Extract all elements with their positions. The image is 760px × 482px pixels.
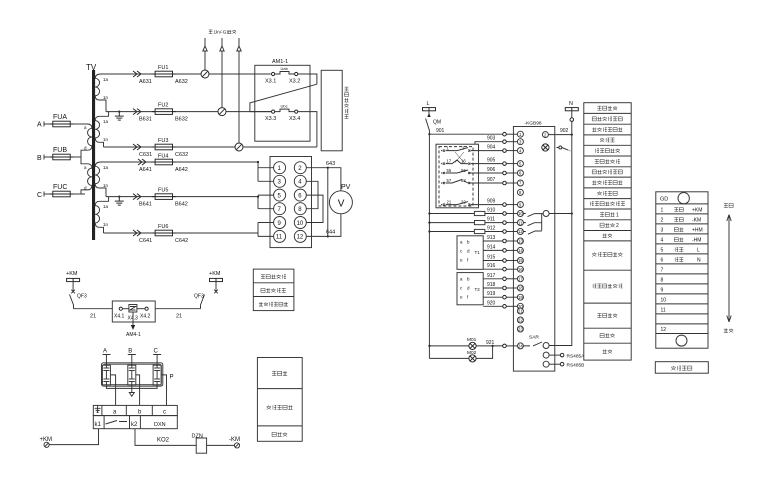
wire 918	[483, 287, 503, 289]
svg-text:58: 58	[461, 178, 466, 183]
svg-text:A632: A632	[175, 79, 188, 85]
svg-text:1: 1	[278, 166, 282, 172]
fuse FU2	[152, 109, 176, 115]
wire k1 down to +KM	[49, 429, 99, 445]
stud RS485A	[560, 353, 564, 357]
node 921	[492, 345, 494, 347]
svg-text:FU1: FU1	[158, 65, 168, 71]
legend table A	[253, 269, 294, 311]
svg-text:1: 1	[616, 213, 619, 219]
svg-text:1n: 1n	[103, 95, 109, 100]
svg-text:AM1-1: AM1-1	[272, 59, 288, 65]
svg-text:16: 16	[461, 158, 466, 163]
switch SAR	[523, 342, 543, 346]
svg-text:910: 910	[487, 208, 496, 214]
svg-text:9: 9	[661, 288, 664, 294]
switch QM	[426, 119, 430, 135]
svg-text:3: 3	[278, 180, 282, 186]
row2 chevron	[133, 109, 141, 115]
node 643	[327, 167, 329, 169]
svg-text:FU3: FU3	[158, 138, 168, 144]
svg-text:1: 1	[661, 208, 664, 214]
wire 905	[473, 163, 503, 165]
terminal -KM bottom	[234, 443, 239, 448]
sensor 3	[153, 365, 161, 385]
right margin top text	[724, 203, 733, 207]
feed 917	[503, 277, 507, 281]
svg-text:B631: B631	[139, 117, 152, 123]
wire 915	[483, 260, 503, 262]
sensor 1	[102, 365, 110, 385]
ground at B631	[115, 112, 124, 121]
svg-text:906: 906	[487, 167, 496, 173]
svg-text:17: 17	[447, 158, 452, 163]
wire M02 row	[429, 346, 492, 359]
svg-text:AM4-1: AM4-1	[126, 332, 141, 338]
primary winding P1	[81, 124, 92, 157]
svg-text:C: C	[37, 192, 42, 199]
legend table B	[257, 358, 302, 442]
feed 920	[503, 305, 507, 309]
terminal 12	[294, 230, 306, 242]
terminal 11	[274, 230, 286, 242]
junction box bottom row	[93, 416, 177, 429]
busbar +KM left	[67, 278, 80, 281]
svg-text:6: 6	[298, 193, 302, 199]
svg-text:22: 22	[461, 199, 466, 204]
svg-text:7: 7	[661, 268, 664, 274]
wire S1 top to row1	[101, 73, 130, 75]
node B641 bracket	[257, 196, 259, 198]
svg-text:11: 11	[518, 220, 523, 225]
svg-text:11: 11	[661, 308, 666, 314]
svg-text:23: 23	[518, 327, 523, 332]
svg-text:KO2: KO2	[157, 438, 170, 444]
fuse FUA	[50, 121, 74, 127]
svg-text:5: 5	[278, 193, 282, 199]
svg-text:-HM: -HM	[692, 238, 701, 244]
svg-text:X4.1: X4.1	[114, 314, 125, 320]
node 902 N	[571, 134, 573, 136]
svg-text:1kV-G1: 1kV-G1	[214, 30, 230, 35]
feed 919	[503, 295, 507, 299]
svg-text:X3.3: X3.3	[265, 116, 276, 122]
terminal RS485A	[543, 352, 549, 358]
wire 919	[483, 296, 503, 298]
svg-text:1n: 1n	[103, 137, 109, 142]
svg-text:10: 10	[297, 221, 304, 227]
svg-text:1a: 1a	[103, 204, 109, 209]
svg-text:14: 14	[518, 248, 523, 253]
wire X3.4 right riser from C row	[298, 112, 317, 147]
svg-text:5: 5	[661, 248, 664, 254]
GD rows text	[661, 208, 703, 334]
legend B row3 text	[272, 432, 287, 436]
wire SAR to N bus	[549, 214, 572, 346]
contact row 906	[441, 168, 473, 174]
wire 914	[483, 249, 503, 251]
wire S2 bottom to row3	[104, 146, 131, 148]
wire 644 from terminal 12	[306, 214, 341, 237]
svg-text:4: 4	[661, 238, 664, 244]
node 912	[428, 230, 430, 232]
terminal 1	[274, 162, 286, 174]
wire S3 top to row4	[101, 161, 130, 163]
wire 904	[473, 150, 503, 152]
terminal 6	[294, 189, 306, 201]
svg-text:k2: k2	[131, 422, 138, 428]
svg-text:Uab: Uab	[281, 66, 289, 71]
wire 910	[429, 213, 502, 215]
bracket 6-10	[306, 195, 323, 222]
svg-text:914: 914	[487, 244, 496, 250]
svg-text:GD: GD	[660, 197, 668, 203]
GD bottom circle	[676, 335, 687, 346]
svg-text:B641: B641	[139, 202, 152, 208]
svg-text:18: 18	[518, 286, 523, 291]
node 901	[428, 133, 430, 135]
busbar +KM right	[210, 278, 223, 281]
svg-text:10: 10	[518, 211, 523, 216]
svg-text:8: 8	[298, 207, 302, 213]
svg-text:B: B	[37, 155, 42, 162]
svg-text:919: 919	[487, 291, 496, 297]
svg-text:L: L	[697, 248, 700, 254]
feed 911	[503, 221, 507, 225]
wire 909	[473, 204, 503, 206]
svg-text:22: 22	[518, 318, 523, 323]
lamp M02	[469, 355, 476, 362]
svg-text:FUB: FUB	[53, 147, 67, 154]
svg-text:1a: 1a	[103, 165, 109, 170]
svg-text:FU6: FU6	[158, 224, 168, 230]
feed 910	[503, 212, 507, 216]
T1 inner marks	[460, 240, 480, 263]
right margin bottom text	[724, 328, 733, 332]
svg-text:P: P	[170, 375, 174, 381]
row4 chevron	[138, 159, 146, 165]
feed 921	[503, 344, 507, 348]
svg-text:55: 55	[447, 168, 452, 173]
transformer TV core	[92, 70, 95, 240]
fuse FU3	[152, 144, 176, 150]
svg-text:11: 11	[276, 235, 283, 241]
svg-text:17: 17	[518, 277, 523, 282]
svg-text:RS485A: RS485A	[567, 353, 586, 359]
right terminal mid	[543, 211, 549, 217]
wire FUA to primary	[74, 123, 86, 125]
wire row2 to X3.3	[226, 111, 271, 113]
feed 905	[503, 162, 507, 166]
wire row5	[106, 196, 258, 198]
svg-text:DXN: DXN	[154, 422, 166, 428]
terminal 5	[274, 189, 286, 201]
svg-text:C631: C631	[139, 152, 152, 158]
junction box top row	[93, 405, 177, 415]
feed 912	[503, 230, 507, 234]
wire AM4-1 to right switch	[155, 308, 200, 310]
wire lamp M02 links	[465, 357, 480, 359]
plug drop arrow	[132, 312, 134, 325]
node 644	[327, 235, 329, 237]
svg-text:B642: B642	[175, 202, 188, 208]
fuse FU5	[152, 194, 176, 200]
svg-text:a: a	[84, 125, 87, 130]
svg-text:901: 901	[436, 128, 445, 134]
strip right terminal 2	[542, 132, 548, 138]
svg-text:15: 15	[518, 258, 523, 263]
secondary winding S1	[95, 74, 106, 112]
wire A to FUA	[44, 123, 50, 125]
svg-text:A631: A631	[139, 79, 152, 85]
row3 chevron	[133, 144, 141, 150]
legend A row1 text	[261, 275, 286, 279]
svg-text:2: 2	[616, 223, 619, 229]
svg-text:k1: k1	[95, 422, 102, 428]
sensor outer box	[102, 363, 163, 386]
feed 904	[503, 149, 507, 153]
SAR right terminal	[543, 343, 549, 349]
svg-text:911: 911	[487, 217, 495, 223]
box T1	[457, 236, 483, 269]
terminal X3.4	[295, 110, 298, 113]
svg-text:X3.2: X3.2	[289, 79, 300, 85]
svg-text:24: 24	[518, 344, 523, 349]
svg-text:X3.1: X3.1	[265, 79, 276, 85]
svg-text:C: C	[154, 349, 159, 355]
box T2	[457, 273, 483, 305]
wire row2	[130, 111, 218, 113]
svg-text:L: L	[427, 101, 430, 107]
svg-text:TV: TV	[86, 63, 97, 72]
wire 901	[429, 133, 502, 135]
wire RS485B	[549, 363, 560, 365]
svg-text:916: 916	[487, 263, 496, 269]
svg-text:2: 2	[661, 218, 664, 224]
svg-text:V: V	[338, 199, 345, 210]
stem N	[571, 111, 573, 118]
row5 chevron	[133, 194, 141, 200]
feed 909	[503, 203, 507, 207]
phase B drop	[128, 355, 136, 366]
svg-text:+KM: +KM	[209, 271, 221, 277]
svg-text:643: 643	[326, 161, 335, 167]
wire 911	[429, 222, 502, 224]
svg-text:8: 8	[661, 278, 664, 284]
wire row3 to AM1 right riser	[243, 146, 317, 148]
wire 913	[483, 240, 503, 242]
ground arrow	[129, 388, 134, 396]
relay dashed box outer	[436, 144, 479, 208]
wire M01 row	[429, 345, 502, 347]
svg-text:B632: B632	[175, 117, 188, 123]
svg-text:B: B	[128, 349, 132, 355]
terminal X3.1	[272, 72, 275, 75]
legend B row2 text	[267, 405, 293, 409]
svg-text:19: 19	[518, 295, 523, 300]
node 911	[428, 222, 430, 224]
wire X3.2 right and down	[298, 74, 317, 84]
strip left terminals	[517, 131, 523, 349]
contact k1-k2	[106, 421, 128, 425]
box AM1-1	[255, 65, 310, 141]
svg-text:902: 902	[560, 128, 569, 134]
secondary winding S4	[95, 197, 108, 233]
wire C to FUC	[44, 193, 50, 195]
stud RS485B	[560, 362, 564, 366]
svg-text:-KM: -KM	[229, 437, 240, 443]
svg-text:A641: A641	[139, 167, 152, 173]
riser to top phase B	[221, 38, 223, 108]
svg-text:QM: QM	[433, 120, 441, 126]
svg-text:RS485B: RS485B	[567, 362, 585, 368]
svg-text:907: 907	[487, 177, 496, 183]
arrow L stem	[427, 113, 430, 117]
svg-text:1a: 1a	[103, 119, 109, 124]
svg-text:a: a	[84, 165, 87, 170]
busbar N	[565, 108, 578, 111]
N stem terminal	[570, 118, 574, 122]
bus spec box	[655, 362, 708, 374]
wire row3	[130, 146, 235, 148]
function table texts	[597, 106, 617, 110]
svg-text:9: 9	[278, 221, 282, 227]
feed 914	[503, 249, 507, 253]
switch QF3 left	[70, 295, 74, 309]
svg-text:X4.2: X4.2	[140, 314, 151, 320]
wire C641 bracket to 9,11	[258, 223, 274, 237]
selector tall box	[321, 70, 342, 151]
resistor 912	[474, 229, 485, 233]
secondary winding S3	[95, 162, 106, 197]
feed 916	[503, 267, 507, 271]
svg-text:-KM: -KM	[692, 218, 701, 224]
contact mark left	[71, 290, 75, 294]
riser to top phase C	[238, 38, 240, 143]
feed 901	[503, 132, 507, 136]
wire 907	[473, 182, 503, 184]
phase C drop	[153, 355, 161, 366]
svg-text:10: 10	[661, 298, 667, 304]
fuse FU4	[152, 159, 176, 165]
fuse FU6	[152, 230, 176, 236]
bus spec text	[671, 366, 692, 370]
wire S4 bottom to row6	[104, 232, 131, 234]
contact row 904	[441, 145, 473, 151]
wire row4	[130, 161, 258, 163]
svg-text:12: 12	[297, 235, 304, 241]
N bus vertical	[571, 121, 573, 134]
riser to top phase A	[204, 38, 206, 70]
terminal 10	[294, 217, 306, 229]
wire 903	[479, 141, 503, 143]
right margin arrow	[727, 215, 731, 322]
wire busbar stem right	[215, 282, 217, 292]
left bus vertical	[428, 134, 430, 358]
svg-text:13: 13	[518, 239, 523, 244]
wire B to FUB	[44, 156, 50, 158]
test jack row3	[235, 143, 243, 151]
svg-text:C632: C632	[175, 152, 188, 158]
svg-text:M02: M02	[467, 350, 477, 356]
svg-text:a: a	[113, 410, 117, 416]
ground at B641	[115, 197, 124, 206]
plug symbol	[129, 305, 137, 313]
svg-text:PV: PV	[341, 184, 351, 191]
node B631 junction	[118, 111, 120, 113]
svg-text:T2: T2	[475, 287, 481, 292]
terminal 3	[274, 175, 286, 187]
svg-text:21: 21	[90, 314, 96, 320]
svg-text:1a: 1a	[103, 77, 109, 82]
terminal 7	[274, 203, 286, 215]
lamp M01	[469, 342, 476, 349]
lamp strip	[542, 144, 549, 151]
wire 643 from terminal 2	[306, 168, 341, 191]
row1 chevron	[133, 71, 141, 77]
wire 916	[483, 268, 503, 270]
contact strip right	[557, 148, 571, 151]
svg-text:905: 905	[487, 158, 496, 164]
svg-text:N: N	[697, 258, 701, 264]
row6 chevron	[133, 230, 141, 236]
svg-text:c: c	[163, 410, 166, 416]
T2 inner marks	[460, 277, 480, 300]
terminal 8	[294, 203, 306, 215]
svg-text:FU5: FU5	[158, 188, 168, 194]
box AM4-1	[112, 301, 155, 322]
svg-text:FUC: FUC	[53, 184, 67, 191]
wire B631 row	[106, 111, 130, 113]
terminal 2	[294, 162, 306, 174]
test jack row1	[201, 70, 209, 78]
bracket 4-8	[306, 181, 318, 208]
svg-text:X3.4: X3.4	[289, 116, 300, 122]
GD header circle	[678, 193, 689, 204]
tap b	[136, 375, 140, 406]
wire 902	[548, 134, 571, 136]
wire busbar stem left	[72, 282, 74, 292]
svg-text:Ubc: Ubc	[281, 104, 288, 109]
svg-text:7: 7	[278, 207, 282, 213]
contact row 909	[441, 199, 473, 205]
wire A641 bracket to 1,3	[258, 162, 274, 181]
terminal block box	[270, 157, 312, 248]
svg-text:b: b	[138, 410, 142, 416]
wire bracket to terminal	[542, 213, 543, 215]
svg-text:FUA: FUA	[53, 114, 67, 121]
selector vertical text	[345, 87, 349, 118]
svg-text:57: 57	[447, 178, 452, 183]
resistor DZN	[196, 438, 206, 453]
svg-text:1n: 1n	[103, 222, 109, 227]
tap a	[110, 375, 115, 406]
fuse FUC	[50, 191, 74, 197]
svg-text:FU2: FU2	[158, 103, 168, 109]
contact mark right	[214, 290, 218, 294]
svg-text:A: A	[37, 122, 42, 129]
node A641 bracket	[257, 161, 259, 163]
svg-text:1n: 1n	[103, 183, 109, 188]
svg-text:A: A	[103, 349, 107, 355]
feed 915	[503, 259, 507, 263]
svg-text:904: 904	[487, 145, 496, 151]
sensor 2	[128, 365, 136, 385]
svg-text:21: 21	[518, 309, 523, 314]
wire plug to X4.2	[137, 308, 145, 310]
svg-text:912: 912	[487, 226, 496, 232]
svg-text:3: 3	[661, 228, 664, 234]
